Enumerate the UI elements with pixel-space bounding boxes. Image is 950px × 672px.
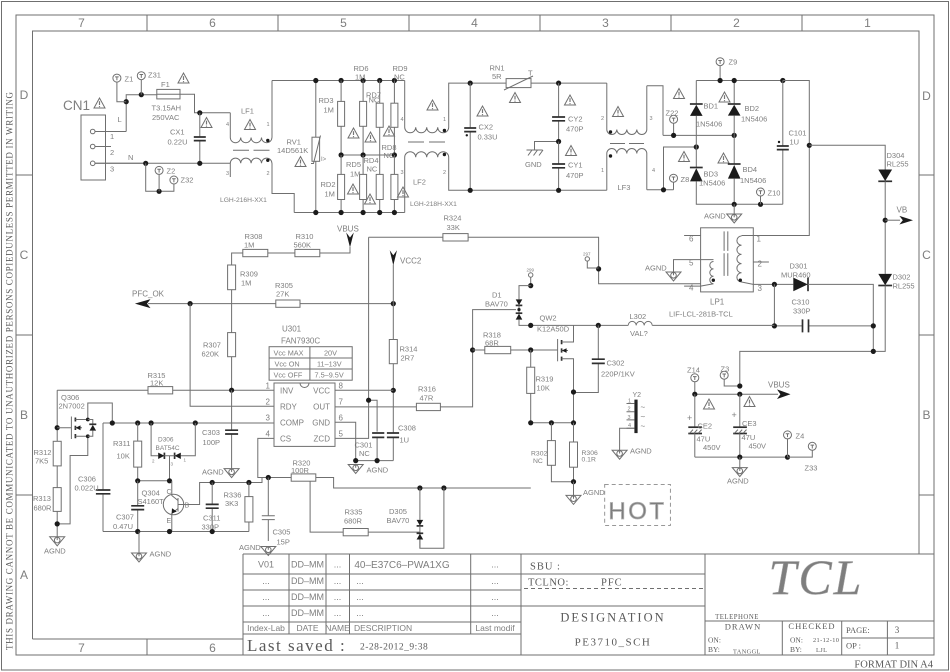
capacitor C311 <box>202 480 221 532</box>
diode D305 BAV70 <box>387 488 444 548</box>
svg-text:AGND: AGND <box>704 212 726 221</box>
svg-text:1U: 1U <box>790 138 800 147</box>
svg-text:DD–MM: DD–MM <box>291 592 324 602</box>
warning triangle LF3 <box>613 107 624 117</box>
svg-text:R324: R324 <box>444 214 462 223</box>
svg-text:20V: 20V <box>324 349 337 358</box>
svg-text:U301: U301 <box>282 325 302 334</box>
svg-text:1: 1 <box>110 132 114 141</box>
resistor RD9 <box>391 64 408 155</box>
resistor RD4 <box>364 155 384 213</box>
svg-text:R302: R302 <box>531 451 547 458</box>
resistor R307 <box>202 304 236 391</box>
svg-text:1N5406: 1N5406 <box>740 176 766 185</box>
svg-text:2: 2 <box>266 398 271 407</box>
svg-text:5R: 5R <box>492 72 502 81</box>
svg-text:68R: 68R <box>485 339 499 348</box>
svg-text:Z22: Z22 <box>666 109 679 118</box>
svg-text:C: C <box>167 489 172 496</box>
svg-text:E: E <box>167 518 172 525</box>
svg-text:BD2: BD2 <box>745 104 760 113</box>
svg-text:220P/1KV: 220P/1KV <box>601 370 635 379</box>
wire drain line to L302 <box>531 324 629 326</box>
transistor Q304 S4160T <box>138 478 269 532</box>
svg-text:Last modif: Last modif <box>475 623 515 633</box>
svg-text:680R: 680R <box>344 517 363 526</box>
svg-text:MUR460: MUR460 <box>781 271 811 280</box>
svg-text:C303: C303 <box>202 428 220 437</box>
svg-text:C306: C306 <box>78 475 96 484</box>
svg-text:7: 7 <box>339 398 344 407</box>
svg-text:33K: 33K <box>447 223 460 232</box>
warning triangle CE2 <box>704 399 715 409</box>
warning triangle CY2 <box>565 95 576 105</box>
warning triangle BD2 <box>719 92 730 102</box>
svg-text:1N5406: 1N5406 <box>699 179 725 188</box>
svg-text:1: 1 <box>266 382 271 391</box>
svg-text:DD–MM: DD–MM <box>291 560 324 570</box>
ground AGND R313 <box>44 521 66 555</box>
svg-text:C: C <box>922 248 931 262</box>
common mode choke LF1 <box>220 81 294 213</box>
wire GND pin6 to AGND rail <box>335 422 393 460</box>
svg-text:0.33U: 0.33U <box>478 133 498 142</box>
svg-text:1: 1 <box>628 399 631 405</box>
svg-text:C302: C302 <box>607 359 625 368</box>
svg-text:0.1R: 0.1R <box>582 457 596 464</box>
resistor RD7 <box>366 81 383 156</box>
resistor R313 <box>33 488 61 537</box>
resistor R306 <box>570 423 598 482</box>
svg-text:7.5–9.5V: 7.5–9.5V <box>315 371 344 380</box>
svg-text:Z10: Z10 <box>768 189 781 198</box>
net arrow VBUS bottom <box>320 225 359 254</box>
svg-text:PFC: PFC <box>601 578 623 589</box>
svg-text:RD2: RD2 <box>321 180 336 189</box>
svg-text:1M: 1M <box>324 106 334 115</box>
svg-text:...: ... <box>491 560 499 570</box>
capacitor CY2 <box>552 83 583 141</box>
svg-text:27K: 27K <box>276 290 289 299</box>
svg-text:5: 5 <box>340 16 347 30</box>
svg-text:10K: 10K <box>537 384 550 393</box>
svg-text:PE3710_SCH: PE3710_SCH <box>575 637 652 649</box>
warning triangle CX2 <box>477 106 488 116</box>
svg-text:LF3: LF3 <box>618 183 631 192</box>
svg-text:+: + <box>687 413 692 423</box>
connector CN1 <box>63 98 146 180</box>
svg-text:RDY: RDY <box>280 402 298 411</box>
svg-text:40–E37C6–PWA1XG: 40–E37C6–PWA1XG <box>354 560 449 571</box>
svg-text:RD3: RD3 <box>319 96 334 105</box>
svg-text:1: 1 <box>443 117 446 123</box>
warning triangle LF2 <box>427 100 438 110</box>
wire N bottom <box>95 162 230 164</box>
svg-text:2: 2 <box>110 148 114 157</box>
bottom bridge bus <box>732 202 737 207</box>
ground AGND R306 <box>566 479 605 504</box>
svg-text:1N5406: 1N5406 <box>741 115 767 124</box>
svg-text:C311: C311 <box>203 514 220 523</box>
svg-text:2: 2 <box>267 171 270 177</box>
transistor Q306 2N7002 <box>57 393 112 524</box>
diode D302 <box>873 273 914 352</box>
wire INV line <box>57 389 274 391</box>
svg-text:11–13V: 11–13V <box>317 360 342 369</box>
svg-text:K12A50D: K12A50D <box>537 325 570 334</box>
capacitor CX2 <box>464 83 497 190</box>
svg-text:DD–MM: DD–MM <box>291 608 324 618</box>
resistor R311 <box>113 423 142 481</box>
svg-text:GND: GND <box>312 418 330 427</box>
svg-text:2: 2 <box>152 459 155 464</box>
svg-text:4: 4 <box>401 117 404 123</box>
test point Z22 <box>666 109 679 136</box>
svg-text:0.022U: 0.022U <box>75 484 99 493</box>
svg-text:C305: C305 <box>273 528 291 537</box>
svg-text:OP :: OP : <box>846 641 861 651</box>
svg-text:2: 2 <box>601 116 604 122</box>
resistor R335 <box>310 481 420 548</box>
svg-text:NC: NC <box>367 165 378 174</box>
svg-text:3: 3 <box>758 284 763 293</box>
common mode choke LF2 <box>401 81 471 213</box>
svg-text:D: D <box>922 89 931 103</box>
capacitor C306 <box>75 423 111 532</box>
wire VBUS feed <box>740 351 874 386</box>
svg-text:1M: 1M <box>241 279 251 288</box>
test point Z2 branch <box>146 163 174 191</box>
svg-text:C308: C308 <box>398 424 416 433</box>
mid bus wire <box>341 154 394 156</box>
svg-text:...: ... <box>356 592 364 602</box>
svg-text:4: 4 <box>652 168 655 174</box>
svg-text:Vcc ON: Vcc ON <box>275 360 300 369</box>
svg-text:Vcc OFF: Vcc OFF <box>274 371 303 380</box>
earth GND symbol <box>525 142 559 170</box>
resistor R305 <box>275 281 300 307</box>
svg-text:1: 1 <box>895 641 900 651</box>
svg-text:A: A <box>20 568 28 582</box>
warning triangle CY1 <box>566 146 577 156</box>
resistor RD2 <box>321 155 345 213</box>
wire COMP rail <box>103 422 274 424</box>
warning triangle RN1 <box>510 93 521 103</box>
svg-text:S4160T: S4160T <box>138 497 165 506</box>
bottom AGND rail <box>103 531 249 533</box>
svg-text:VAL?: VAL? <box>630 329 648 338</box>
HOT zone box <box>605 484 671 525</box>
svg-text:AGND: AGND <box>645 264 667 273</box>
svg-text:297: 297 <box>583 252 591 257</box>
test point Z8 <box>670 174 690 190</box>
svg-text:680R: 680R <box>34 504 53 513</box>
ground AGND bridge <box>704 204 742 223</box>
svg-text:CE3: CE3 <box>742 419 757 428</box>
svg-text:12K: 12K <box>150 379 163 388</box>
diode BD3 <box>690 168 783 205</box>
svg-text:B: B <box>922 408 930 422</box>
svg-text:T3.15AH: T3.15AH <box>152 104 182 113</box>
svg-text:2: 2 <box>758 260 763 269</box>
svg-text:NC: NC <box>384 151 395 160</box>
warning triangles RD mid row <box>348 128 359 138</box>
diode BD2 <box>728 81 767 165</box>
svg-text:FORMAT DIN A4: FORMAT DIN A4 <box>854 660 933 671</box>
svg-text:1N5406: 1N5406 <box>696 120 722 129</box>
svg-text:...: ... <box>491 576 499 586</box>
svg-text:+: + <box>732 410 737 420</box>
svg-text:7: 7 <box>78 641 85 655</box>
fuse F1 <box>152 80 182 122</box>
svg-text:CY2: CY2 <box>568 115 583 124</box>
capacitor C307 <box>113 481 144 532</box>
LP1 pin5 to AGND <box>645 260 701 281</box>
svg-text:ON:: ON: <box>790 636 803 645</box>
svg-text:I>: I> <box>321 157 327 163</box>
svg-text:6: 6 <box>339 414 344 423</box>
capacitor C101 <box>777 81 807 205</box>
svg-text:TCLNO:: TCLNO: <box>528 578 569 589</box>
wire bottom rail mid <box>470 189 607 191</box>
svg-text:1: 1 <box>601 168 604 174</box>
svg-text:0.22U: 0.22U <box>168 138 188 147</box>
wire AC2 node <box>647 147 697 190</box>
svg-text:TCL: TCL <box>769 549 864 605</box>
svg-text:AGND: AGND <box>150 550 172 559</box>
svg-text:1M: 1M <box>325 190 335 199</box>
svg-text:AGND: AGND <box>44 547 66 556</box>
svg-text:VCC: VCC <box>313 386 330 395</box>
svg-text:D302: D302 <box>893 273 911 282</box>
diode BD4 <box>728 164 766 204</box>
svg-text:R314: R314 <box>400 345 418 354</box>
svg-text:4: 4 <box>471 16 478 30</box>
svg-text:~: ~ <box>641 413 646 422</box>
test point Z33 <box>788 442 818 472</box>
svg-text:...: ... <box>491 608 499 618</box>
svg-text:R307: R307 <box>203 341 221 350</box>
svg-text:1: 1 <box>864 16 871 30</box>
capacitor C310 <box>772 298 876 333</box>
warning triangle CX1 <box>201 118 212 128</box>
svg-text:GND: GND <box>525 160 542 169</box>
ground AGND U301 <box>348 465 389 475</box>
svg-text:7: 7 <box>78 16 85 30</box>
svg-text:10K: 10K <box>117 452 130 461</box>
svg-text:C101: C101 <box>789 129 807 138</box>
svg-text:CE2: CE2 <box>698 422 713 431</box>
svg-text:CY1: CY1 <box>568 161 583 170</box>
svg-text:Z32: Z32 <box>181 176 194 185</box>
svg-text:CX1: CX1 <box>170 128 185 137</box>
LP1 pin2 stub <box>753 261 769 263</box>
svg-text:4: 4 <box>689 284 694 293</box>
svg-text:...: ... <box>334 560 342 570</box>
svg-text:L: L <box>118 115 122 124</box>
warning triangle F1 <box>178 73 189 83</box>
svg-text:2: 2 <box>443 170 446 176</box>
svg-text:...: ... <box>262 608 270 618</box>
svg-text:Vcc MAX: Vcc MAX <box>274 349 304 358</box>
Vcc table <box>269 347 352 381</box>
svg-text:ZCD: ZCD <box>314 435 331 444</box>
svg-text:1: 1 <box>267 122 270 128</box>
wire R316 to gate riser <box>440 310 516 407</box>
svg-text:BAV70: BAV70 <box>387 516 410 525</box>
svg-text:DESCRIPTION: DESCRIPTION <box>354 623 412 633</box>
svg-text:3: 3 <box>226 171 229 177</box>
resistor R308 <box>243 232 268 257</box>
net arrow PFC_OK <box>132 290 190 309</box>
svg-text:C: C <box>20 248 29 262</box>
svg-text:3: 3 <box>650 116 653 122</box>
wire R324 to ZCD net <box>335 237 701 438</box>
resistor R302 <box>531 423 574 482</box>
warning triangle CE3 <box>744 397 755 407</box>
svg-text:Z3: Z3 <box>721 365 730 374</box>
varistor RV1 <box>277 81 327 213</box>
svg-text:DRAWN: DRAWN <box>725 622 761 632</box>
svg-text:COMP: COMP <box>280 418 304 427</box>
wire R320 to QW2 source node <box>316 478 531 489</box>
svg-text:DD–MM: DD–MM <box>291 576 324 586</box>
svg-text:CX2: CX2 <box>479 123 494 132</box>
wire CE bottom rail <box>695 456 788 458</box>
warning triangle CN1 <box>94 98 105 108</box>
wire AC1 node <box>663 134 734 136</box>
capacitor C301 <box>355 433 385 461</box>
svg-text:R316: R316 <box>418 385 436 394</box>
svg-text:Index-Lab: Index-Lab <box>247 623 285 633</box>
svg-text:F1: F1 <box>161 80 170 89</box>
ground AGND CE <box>727 457 749 485</box>
svg-text:TELEPHONE: TELEPHONE <box>715 614 759 621</box>
svg-text:2: 2 <box>628 407 631 413</box>
svg-text:Z2: Z2 <box>167 167 176 176</box>
svg-text:3: 3 <box>171 462 174 467</box>
svg-text:BD3: BD3 <box>704 170 719 179</box>
svg-text:VB: VB <box>897 206 908 215</box>
resistor RD6 <box>354 64 369 155</box>
svg-text:RL255: RL255 <box>887 160 909 169</box>
svg-text:AGND: AGND <box>202 468 224 477</box>
svg-text:B: B <box>20 408 28 422</box>
svg-text:R335: R335 <box>345 508 363 517</box>
warning triangle Z8 <box>679 152 690 162</box>
net arrow VBUS right <box>692 381 790 400</box>
wire R311/D306 node <box>138 480 172 482</box>
svg-text:470P: 470P <box>566 125 584 134</box>
svg-text:21-12-10: 21-12-10 <box>813 637 839 644</box>
resistor R314 <box>389 340 417 391</box>
wire VCC pin8 <box>335 389 393 391</box>
svg-text:FAN7930C: FAN7930C <box>281 337 320 346</box>
svg-text:D1: D1 <box>492 291 502 300</box>
svg-text:15P: 15P <box>277 538 290 547</box>
svg-text:...: ... <box>491 592 499 602</box>
svg-text:D: D <box>20 88 29 102</box>
svg-text:8: 8 <box>339 382 344 391</box>
wire AC bus to RN1 <box>470 82 506 84</box>
svg-text:3: 3 <box>628 415 631 421</box>
title block revision rows <box>247 560 515 634</box>
svg-text:D301: D301 <box>790 262 808 271</box>
wire PFC_OK down to RDY <box>190 304 274 407</box>
frame zone numbers bottom <box>78 641 216 655</box>
wire LP1 pin3 node <box>753 283 793 285</box>
svg-text:AGND: AGND <box>630 447 652 456</box>
resistor R310 <box>294 232 320 257</box>
svg-text:2N7002: 2N7002 <box>59 402 85 411</box>
warning triangle RV1 <box>295 157 306 167</box>
svg-text:6: 6 <box>209 16 216 30</box>
svg-text:1M: 1M <box>355 73 365 82</box>
warning triangles RD low row <box>348 184 359 194</box>
svg-text:D305: D305 <box>389 507 407 516</box>
wire R308 left to R309 <box>232 253 243 265</box>
diode D301 <box>781 262 873 352</box>
svg-text:2: 2 <box>733 16 740 30</box>
resistor R318 <box>483 331 511 354</box>
svg-text:Z31: Z31 <box>148 71 161 80</box>
warning triangle Z22 <box>674 89 685 99</box>
frame zone letters left <box>20 88 29 582</box>
svg-text:L302: L302 <box>630 312 647 321</box>
test point Z1 <box>113 74 133 102</box>
resistor RD3 <box>319 81 345 156</box>
Y2 to AGND <box>612 428 652 459</box>
frame zone numbers top <box>78 16 871 30</box>
svg-text:2R7: 2R7 <box>401 354 415 363</box>
frame column ticks top <box>147 15 802 655</box>
svg-text:1M: 1M <box>350 170 360 179</box>
svg-text:D306: D306 <box>158 437 174 444</box>
svg-text:NAME: NAME <box>325 623 350 633</box>
svg-text:LF1: LF1 <box>241 107 254 116</box>
svg-text:0.47U: 0.47U <box>113 522 133 531</box>
wire R318 line <box>473 349 558 351</box>
resistor R319 <box>527 350 554 423</box>
test point Z14 <box>687 366 700 395</box>
svg-text:VCC2: VCC2 <box>400 257 422 266</box>
svg-text:3: 3 <box>266 414 271 423</box>
svg-text:R313: R313 <box>33 494 51 503</box>
svg-text:LJL: LJL <box>816 647 827 654</box>
svg-text:~: ~ <box>641 422 646 431</box>
warning triangle LF1 <box>245 120 256 130</box>
svg-text:3K3: 3K3 <box>225 499 238 508</box>
svg-text:NC: NC <box>359 449 370 458</box>
svg-text:250VAC: 250VAC <box>152 113 180 122</box>
svg-text:LGH-218H-XX1: LGH-218H-XX1 <box>410 201 457 208</box>
svg-text:2-28-2012_9:38: 2-28-2012_9:38 <box>360 643 428 653</box>
svg-text:DESIGNATION: DESIGNATION <box>560 611 665 625</box>
resistor R315 <box>148 371 173 394</box>
frame row ticks <box>16 175 934 495</box>
svg-text:~: ~ <box>641 403 646 412</box>
svg-text:RD5: RD5 <box>346 160 361 169</box>
svg-text:...: ... <box>262 592 270 602</box>
svg-text:3: 3 <box>602 16 609 30</box>
test point Z9 <box>716 58 737 81</box>
wire RN1 to CY2/LF3 <box>531 82 607 84</box>
top bus wire <box>272 80 405 82</box>
diode BD1 <box>690 81 722 168</box>
svg-text:T: T <box>528 69 533 78</box>
svg-text:V01: V01 <box>258 560 274 570</box>
svg-text:7K5: 7K5 <box>35 457 48 466</box>
